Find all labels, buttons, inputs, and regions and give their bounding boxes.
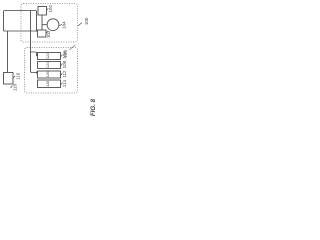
leader R4 (61, 82, 63, 84)
box B (inlet filter) (38, 7, 47, 16)
svg-text:110: 110 (13, 83, 18, 91)
leader for label 103 (46, 32, 47, 33)
wire: box A down to box E (7, 31, 9, 73)
wire: tap to blower circle (42, 24, 47, 26)
svg-text:128: 128 (46, 81, 50, 87)
sensor row R4 (38, 80, 61, 88)
wire: box B down to box D (41, 15, 43, 30)
svg-text:102: 102 (48, 4, 53, 12)
svg-text:100: 100 (84, 17, 89, 25)
dashed enclosure 100 (flow generator) (21, 4, 78, 43)
leader for label 110 (11, 86, 13, 88)
svg-text:114: 114 (62, 80, 67, 88)
wire: bus from box A down to sensor rows (31, 11, 38, 73)
svg-text:104: 104 (62, 21, 67, 29)
svg-text:122: 122 (46, 53, 50, 59)
box E (bottom-left) (4, 73, 14, 85)
blower circle 104 (47, 19, 59, 31)
sensor row R2 (38, 62, 61, 69)
svg-text:112: 112 (62, 70, 67, 78)
wire: branch to row R1 (31, 52, 38, 56)
leader for label 130 (69, 45, 75, 50)
leader R1 (61, 54, 63, 56)
controller box A (4, 11, 37, 32)
svg-text:106: 106 (62, 51, 67, 59)
sensor row R3 (38, 71, 61, 78)
leader for label 116 (13, 76, 15, 78)
svg-text:126: 126 (46, 72, 50, 78)
wire: box A to box D (37, 30, 38, 32)
svg-text:116: 116 (16, 72, 21, 80)
leader for label 102 (47, 8, 48, 10)
junction dot at row R3 (36, 72, 38, 74)
dashed enclosure 130 (sensor module) (25, 48, 78, 94)
leader for label 104 (59, 24, 62, 26)
svg-text:124: 124 (46, 62, 50, 68)
leader R3 (61, 73, 63, 75)
leader for label 100 (78, 23, 82, 26)
leader R2 (61, 63, 63, 65)
svg-text:FIG. 8: FIG. 8 (90, 98, 97, 116)
box D (muffler) (38, 30, 47, 37)
svg-text:103: 103 (46, 30, 51, 38)
sensor row R1 (38, 53, 61, 60)
svg-text:108: 108 (62, 60, 67, 68)
